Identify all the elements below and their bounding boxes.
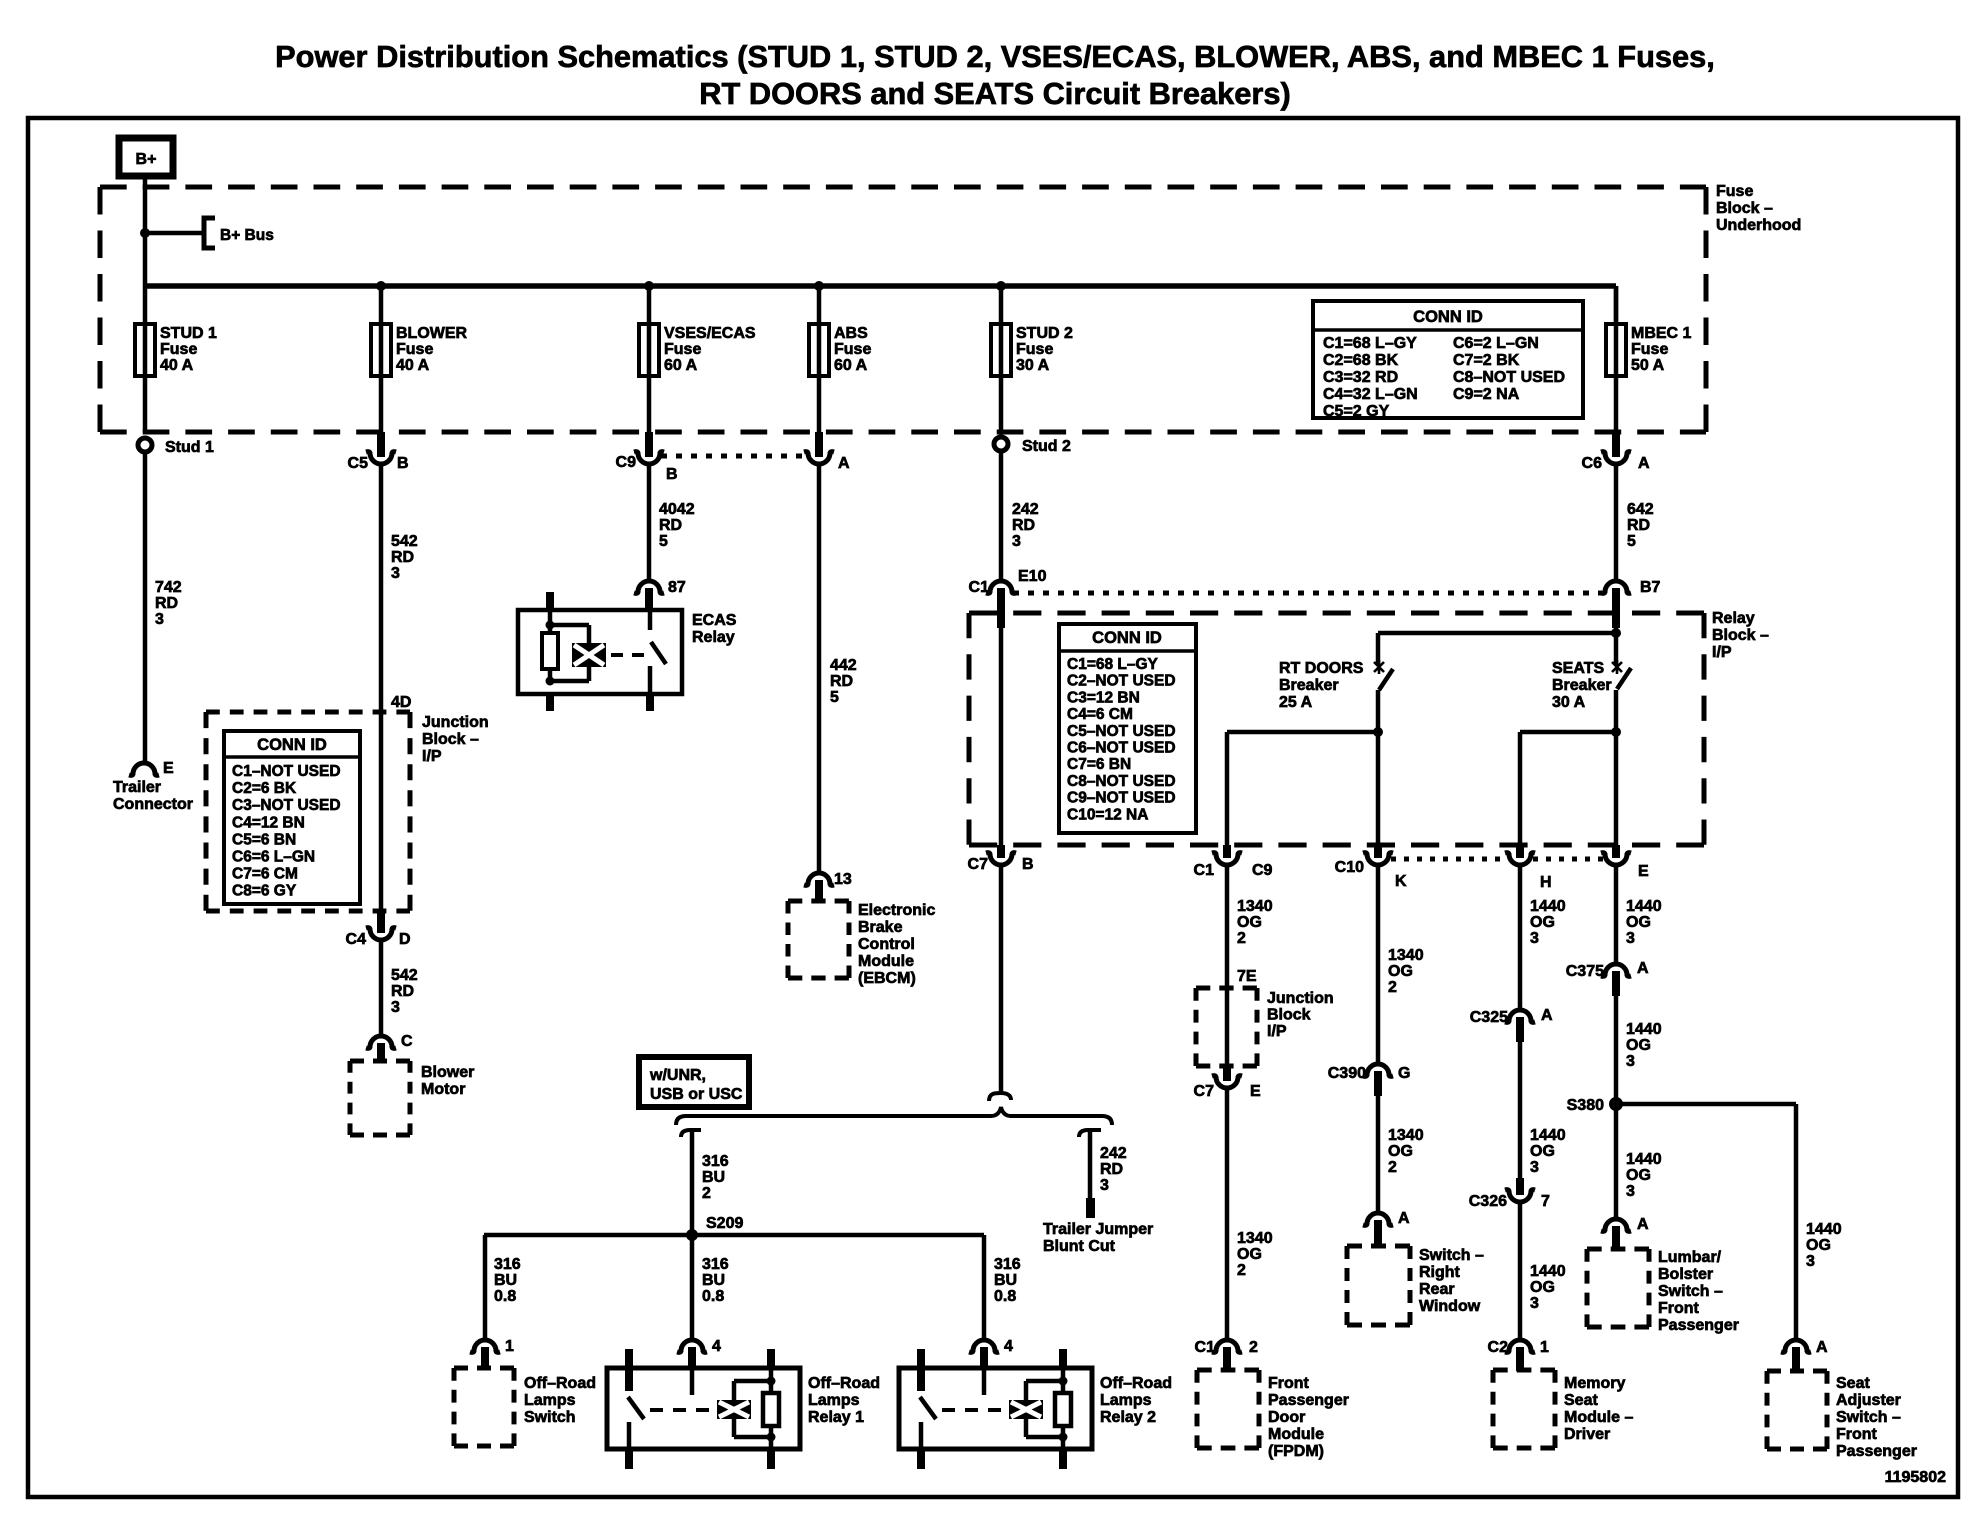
svg-text:1195802: 1195802	[1885, 1469, 1947, 1486]
svg-text:2: 2	[702, 1185, 711, 1202]
svg-text:Stud 1: Stud 1	[165, 439, 214, 456]
splice S380	[1609, 1097, 1623, 1111]
svg-text:1440: 1440	[1626, 898, 1662, 915]
svg-text:3: 3	[155, 611, 164, 628]
svg-text:Motor: Motor	[421, 1081, 465, 1098]
svg-text:E: E	[1250, 1083, 1261, 1100]
wire RT DOORS breaker output	[1376, 690, 1381, 845]
Front Passenger Door Module (FPDM)	[1197, 1368, 1259, 1373]
svg-text:Fuse: Fuse	[834, 341, 871, 358]
Blower Motor module	[350, 1059, 410, 1064]
svg-text:RD: RD	[1100, 1161, 1123, 1178]
svg-text:B: B	[666, 466, 678, 483]
svg-text:C7: C7	[1194, 1083, 1215, 1100]
svg-text:2: 2	[1237, 1262, 1246, 1279]
connector C326 pin 7	[1516, 1178, 1524, 1195]
svg-text:5: 5	[659, 533, 668, 550]
wire 442 RD 5	[817, 463, 822, 873]
svg-text:Switch –: Switch –	[1419, 1247, 1484, 1264]
svg-text:Lamps: Lamps	[1100, 1392, 1152, 1409]
svg-text:C10: C10	[1335, 859, 1364, 876]
svg-text:OG: OG	[1388, 963, 1413, 980]
svg-text:442: 442	[830, 657, 857, 674]
fuse BLOWER 40 A	[379, 286, 384, 324]
svg-text:I/P: I/P	[422, 748, 442, 765]
svg-text:C1: C1	[1194, 862, 1215, 879]
wire 642 RD 5	[1614, 463, 1619, 581]
svg-text:C1: C1	[1195, 1339, 1216, 1356]
wire 1440 OG 3 to S380	[1614, 996, 1619, 1104]
svg-text:Lumbar/: Lumbar/	[1658, 1249, 1722, 1266]
svg-text:Fuse: Fuse	[1016, 341, 1053, 358]
relay Off-Road Lamps Relay 2	[899, 1368, 1092, 1449]
connector pin A switch RRW	[1363, 1213, 1393, 1225]
wire E10 to C7	[999, 628, 1004, 845]
svg-text:C4=6 CM: C4=6 CM	[1067, 706, 1133, 723]
svg-text:Block: Block	[1267, 1007, 1311, 1024]
wire S209 bus	[484, 1233, 984, 1238]
wire breaker feed to RT DOORS	[1378, 631, 1616, 636]
svg-text:VSES/ECAS: VSES/ECAS	[664, 325, 756, 342]
svg-text:60 A: 60 A	[834, 357, 868, 374]
svg-text:C9: C9	[1252, 862, 1273, 879]
svg-text:5: 5	[830, 689, 839, 706]
wire B+ feed	[143, 176, 148, 286]
svg-text:RD: RD	[659, 517, 682, 534]
svg-text:1: 1	[505, 1338, 514, 1355]
svg-text:OG: OG	[1626, 1037, 1651, 1054]
svg-text:Rear: Rear	[1419, 1281, 1455, 1298]
wire to C1/C9	[1227, 730, 1378, 735]
connector pin A lumbar	[1601, 1219, 1631, 1231]
svg-text:4: 4	[712, 1338, 721, 1355]
svg-text:CONN ID: CONN ID	[1092, 629, 1162, 647]
svg-text:C7=2 BK: C7=2 BK	[1453, 352, 1520, 369]
svg-text:K: K	[1395, 873, 1407, 890]
svg-text:Front: Front	[1658, 1300, 1700, 1317]
svg-text:Junction: Junction	[422, 714, 489, 731]
connector pin 13	[804, 873, 834, 885]
wire to B+ Bus	[145, 231, 203, 236]
Seat Adjuster Switch - Front Passenger	[1767, 1369, 1827, 1374]
junction on bus at BLOWER	[376, 281, 386, 291]
svg-text:542: 542	[391, 533, 418, 550]
svg-text:Junction: Junction	[1267, 990, 1334, 1007]
svg-text:BU: BU	[494, 1272, 517, 1289]
svg-text:542: 542	[391, 967, 418, 984]
svg-text:4: 4	[1004, 1338, 1013, 1355]
svg-text:Brake: Brake	[858, 919, 903, 936]
svg-text:C3=32 RD: C3=32 RD	[1323, 369, 1398, 386]
svg-text:Fuse: Fuse	[396, 341, 433, 358]
ECAS Relay	[518, 610, 682, 694]
svg-text:OG: OG	[1530, 1279, 1555, 1296]
dotted connector tie C9-A	[661, 454, 807, 459]
svg-text:Breaker: Breaker	[1552, 677, 1612, 694]
svg-text:40 A: 40 A	[396, 357, 430, 374]
wire 316 BU 0.8 right	[982, 1235, 987, 1340]
svg-text:B: B	[397, 455, 409, 472]
svg-text:316: 316	[494, 1256, 521, 1273]
connector pin 4 relay 1	[677, 1340, 707, 1352]
svg-text:Seat: Seat	[1564, 1392, 1598, 1409]
svg-text:C326: C326	[1469, 1193, 1507, 1210]
svg-text:Electronic: Electronic	[858, 902, 935, 919]
svg-text:Door: Door	[1268, 1409, 1305, 1426]
svg-text:3: 3	[1530, 1295, 1539, 1312]
svg-text:C1=68 L–GY: C1=68 L–GY	[1067, 656, 1159, 673]
wire through junction block IP	[1225, 988, 1230, 1066]
svg-text:C3–NOT USED: C3–NOT USED	[232, 797, 341, 814]
svg-text:D: D	[399, 931, 411, 948]
dotted connector tie C10-H-E	[1391, 857, 1507, 862]
ECAS relay pin stubs below	[546, 694, 554, 711]
wire SEATS breaker output	[1614, 690, 1619, 845]
Junction Block I/P small	[1196, 986, 1257, 991]
svg-text:A: A	[1541, 1007, 1553, 1024]
svg-text:3: 3	[1100, 1177, 1109, 1194]
connector pin A at ABS fuse	[815, 432, 823, 457]
ECAS relay coil-contact dashed link	[611, 653, 645, 657]
svg-text:40 A: 40 A	[160, 357, 194, 374]
svg-text:BU: BU	[702, 1272, 725, 1289]
svg-text:3: 3	[1530, 930, 1539, 947]
svg-text:7: 7	[1541, 1193, 1550, 1210]
svg-text:(EBCM): (EBCM)	[858, 970, 916, 987]
wire 1340 OG 2 to C390	[1376, 866, 1381, 1064]
svg-text:RD: RD	[155, 595, 178, 612]
svg-text:C1: C1	[969, 579, 990, 596]
svg-text:C7: C7	[968, 856, 989, 873]
svg-text:B+: B+	[136, 151, 157, 168]
svg-text:C: C	[401, 1033, 413, 1050]
svg-text:3: 3	[1012, 533, 1021, 550]
ECAS relay switch	[648, 610, 653, 630]
svg-text:B: B	[1022, 856, 1034, 873]
svg-text:1440: 1440	[1806, 1221, 1842, 1238]
svg-text:C4=12 BN: C4=12 BN	[232, 814, 305, 831]
svg-text:13: 13	[834, 871, 852, 888]
svg-text:H: H	[1540, 874, 1552, 891]
svg-text:Adjuster: Adjuster	[1836, 1392, 1901, 1409]
svg-text:Off–Road: Off–Road	[1100, 1375, 1172, 1392]
junction on bus at ABS	[814, 281, 824, 291]
svg-text:OG: OG	[1626, 914, 1651, 931]
svg-text:316: 316	[702, 1256, 729, 1273]
svg-text:MBEC 1: MBEC 1	[1631, 325, 1692, 342]
wire 1340 OG 2 to switch	[1376, 1096, 1381, 1213]
svg-text:w/UNR,: w/UNR,	[649, 1067, 706, 1084]
connector C375 pin A	[1601, 964, 1631, 976]
svg-text:Block –: Block –	[1712, 627, 1769, 644]
fuse MBEC 1 50 A	[1614, 286, 1619, 324]
Fuse Block - Underhood boundary	[100, 185, 1706, 190]
Off-Road Lamps Switch	[454, 1366, 514, 1371]
Relay Block - I/P boundary	[969, 611, 1704, 616]
ECAS relay coil loop with valve symbol	[550, 623, 589, 628]
svg-text:Block –: Block –	[1716, 200, 1773, 217]
svg-text:Block –: Block –	[422, 731, 479, 748]
svg-text:C9: C9	[616, 454, 637, 471]
svg-text:C6=2 L–GN: C6=2 L–GN	[1453, 335, 1539, 352]
wire end hook	[989, 1093, 1011, 1101]
svg-text:87: 87	[668, 579, 686, 596]
svg-text:C325: C325	[1470, 1009, 1508, 1026]
svg-text:3: 3	[391, 999, 400, 1016]
svg-text:A: A	[1816, 1339, 1828, 1356]
svg-text:RD: RD	[391, 549, 414, 566]
stud terminal Stud 2	[994, 437, 1008, 451]
connector pin A seat adjuster	[1781, 1340, 1811, 1352]
wire B7 to breakers	[1614, 628, 1619, 664]
svg-text:Relay: Relay	[692, 629, 735, 646]
svg-text:Bolster: Bolster	[1658, 1266, 1713, 1283]
svg-text:A: A	[1638, 455, 1650, 472]
wire 1440 OG 3 to C375	[1614, 866, 1619, 964]
svg-text:Fuse: Fuse	[1631, 341, 1668, 358]
connector pin 1	[470, 1340, 500, 1352]
svg-text:Off–Road: Off–Road	[524, 1375, 596, 1392]
stud terminal Stud 1	[138, 438, 152, 452]
connector C4 pin D	[377, 911, 385, 933]
ECAS relay coil	[542, 633, 558, 669]
svg-text:2: 2	[1388, 1159, 1397, 1176]
svg-text:RT DOORS and SEATS Circuit Bre: RT DOORS and SEATS Circuit Breakers)	[699, 76, 1291, 111]
svg-text:C6: C6	[1582, 455, 1603, 472]
wire 1340 OG 2 lower	[1225, 1089, 1230, 1340]
svg-text:C10=12 NA: C10=12 NA	[1067, 806, 1148, 823]
svg-text:C2=68 BK: C2=68 BK	[1323, 352, 1399, 369]
connector C2 pin 1 memory seat	[1505, 1340, 1535, 1352]
svg-text:2: 2	[1237, 930, 1246, 947]
connector pin H	[1516, 845, 1524, 858]
svg-text:1340: 1340	[1388, 1127, 1424, 1144]
svg-text:A: A	[1637, 1216, 1649, 1233]
Junction Block - I/P boundary	[206, 710, 410, 715]
svg-text:Connector: Connector	[113, 796, 193, 813]
wire 542 RD 3 lower	[379, 941, 384, 1036]
svg-text:Fuse: Fuse	[160, 341, 197, 358]
svg-text:Relay 1: Relay 1	[808, 1409, 864, 1426]
wire 316 circuit feed	[999, 866, 1004, 1093]
connector C - Blower Motor	[366, 1036, 396, 1048]
svg-text:242: 242	[1100, 1145, 1127, 1162]
svg-text:A: A	[838, 455, 850, 472]
svg-text:2: 2	[1388, 979, 1397, 996]
svg-text:I/P: I/P	[1712, 644, 1732, 661]
wire 742 RD 3	[143, 452, 148, 762]
svg-text:742: 742	[155, 579, 182, 596]
junction RT DOORS split	[1373, 727, 1383, 737]
svg-text:OG: OG	[1530, 914, 1555, 931]
connector C9 pin B	[645, 432, 653, 457]
svg-text:Trailer Jumper: Trailer Jumper	[1043, 1221, 1153, 1238]
svg-text:3: 3	[1626, 1053, 1635, 1070]
svg-text:Right: Right	[1419, 1264, 1461, 1281]
svg-text:E: E	[1638, 863, 1649, 880]
svg-text:B+ Bus: B+ Bus	[220, 227, 274, 244]
wire B+ bus distribution	[145, 283, 1616, 289]
svg-text:S209: S209	[706, 1215, 743, 1232]
svg-text:RD: RD	[830, 673, 853, 690]
svg-text:E10: E10	[1018, 568, 1047, 585]
relay Off-Road Lamps Relay 1	[607, 1368, 800, 1449]
svg-text:Module: Module	[858, 953, 914, 970]
svg-text:Front: Front	[1268, 1375, 1310, 1392]
svg-text:4D: 4D	[391, 694, 411, 711]
svg-text:Relay: Relay	[1712, 610, 1755, 627]
svg-text:C390: C390	[1328, 1065, 1366, 1082]
svg-text:RT DOORS: RT DOORS	[1279, 660, 1364, 677]
svg-text:Memory: Memory	[1564, 1375, 1625, 1392]
svg-text:Blower: Blower	[421, 1064, 474, 1081]
svg-text:1340: 1340	[1388, 947, 1424, 964]
CONN ID table - fuse block underhood	[1313, 301, 1583, 418]
svg-text:C8=6 GY: C8=6 GY	[232, 883, 297, 900]
svg-text:C6=6 L–GN: C6=6 L–GN	[232, 849, 315, 866]
svg-text:2: 2	[1249, 1339, 1258, 1356]
svg-text:0.8: 0.8	[494, 1288, 516, 1305]
svg-text:316: 316	[702, 1153, 729, 1170]
wire 316 BU 0.8 middle	[690, 1235, 695, 1340]
svg-text:C5–NOT USED: C5–NOT USED	[1067, 723, 1176, 740]
connector C7 pin B	[997, 845, 1005, 858]
svg-text:Breaker: Breaker	[1279, 677, 1339, 694]
svg-text:RD: RD	[1012, 517, 1035, 534]
svg-text:STUD 1: STUD 1	[160, 325, 217, 342]
svg-text:0.8: 0.8	[702, 1288, 724, 1305]
svg-text:C8–NOT USED: C8–NOT USED	[1067, 773, 1176, 790]
svg-text:1440: 1440	[1530, 898, 1566, 915]
svg-text:(FPDM): (FPDM)	[1268, 1443, 1324, 1460]
svg-text:C7=6 CM: C7=6 CM	[232, 866, 298, 883]
wire 542 RD 3 upper	[379, 463, 384, 712]
node B+ Bus tap	[140, 228, 150, 238]
svg-text:STUD 2: STUD 2	[1016, 325, 1073, 342]
svg-text:Driver: Driver	[1564, 1426, 1610, 1443]
svg-text:Lamps: Lamps	[524, 1392, 576, 1409]
svg-text:3: 3	[1626, 1183, 1635, 1200]
fuse ABS 60 A	[817, 286, 822, 324]
svg-text:CONN ID: CONN ID	[257, 736, 327, 754]
svg-text:OG: OG	[1806, 1237, 1831, 1254]
svg-text:C5=6 BN: C5=6 BN	[232, 831, 296, 848]
svg-text:1340: 1340	[1237, 898, 1273, 915]
connector pin 87	[634, 581, 664, 593]
svg-text:C6–NOT USED: C6–NOT USED	[1067, 740, 1176, 757]
svg-text:1: 1	[1540, 1339, 1549, 1356]
svg-text:C2–NOT USED: C2–NOT USED	[1067, 673, 1176, 690]
svg-text:OG: OG	[1237, 1246, 1262, 1263]
svg-text:Trailer: Trailer	[113, 779, 161, 796]
svg-text:4042: 4042	[659, 501, 695, 518]
connector C6 pin A	[1612, 432, 1620, 457]
svg-text:E: E	[163, 760, 174, 777]
svg-text:3: 3	[1626, 930, 1635, 947]
svg-text:1340: 1340	[1237, 1230, 1273, 1247]
svg-text:642: 642	[1627, 501, 1654, 518]
svg-text:S380: S380	[1567, 1097, 1604, 1114]
fuse VSES/ECAS 60 A	[647, 286, 652, 324]
Electronic Brake Control Module (EBCM)	[788, 899, 849, 904]
svg-text:Seat: Seat	[1836, 1375, 1870, 1392]
svg-text:BU: BU	[702, 1169, 725, 1186]
svg-text:3: 3	[1530, 1159, 1539, 1176]
svg-text:C1=68 L–GY: C1=68 L–GY	[1323, 335, 1417, 352]
svg-text:5: 5	[1627, 533, 1636, 550]
svg-text:SEATS: SEATS	[1552, 660, 1604, 677]
svg-text:Blunt Cut: Blunt Cut	[1043, 1238, 1116, 1255]
svg-text:Switch –: Switch –	[1658, 1283, 1723, 1300]
svg-text:Underhood: Underhood	[1716, 217, 1801, 234]
svg-text:Control: Control	[858, 936, 915, 953]
svg-text:C9=2 NA: C9=2 NA	[1453, 386, 1520, 403]
svg-text:C4=32 L–GN: C4=32 L–GN	[1323, 386, 1418, 403]
dotted connector tie E10-B7	[1013, 591, 1602, 596]
Lumbar/Bolster Switch - Front Passenger	[1587, 1247, 1649, 1252]
fuse STUD 2 30 A	[999, 286, 1004, 324]
junction breaker feed	[1611, 628, 1621, 638]
svg-text:RD: RD	[391, 983, 414, 1000]
svg-text:B7: B7	[1640, 579, 1661, 596]
svg-text:USB or USC: USB or USC	[650, 1086, 743, 1103]
wire 1440 OG 3 to C326	[1518, 1042, 1523, 1180]
svg-text:C375: C375	[1566, 963, 1604, 980]
svg-text:A: A	[1637, 960, 1649, 977]
svg-text:1440: 1440	[1530, 1127, 1566, 1144]
connector C1 pin 2 FPDM	[1212, 1340, 1242, 1352]
svg-text:C2=6 BK: C2=6 BK	[232, 780, 297, 797]
splice S209	[686, 1229, 698, 1241]
svg-text:ECAS: ECAS	[692, 612, 737, 629]
connector C1 pin E10	[986, 581, 1016, 593]
svg-text:7E: 7E	[1237, 968, 1257, 985]
svg-text:Fuse: Fuse	[664, 341, 701, 358]
connector C5 pin B	[377, 432, 385, 457]
connector pin 4 relay 2	[969, 1340, 999, 1352]
svg-text:Power Distribution Schematics: Power Distribution Schematics (STUD 1, S…	[275, 39, 1715, 74]
svg-text:Stud 2: Stud 2	[1022, 438, 1071, 455]
svg-text:CONN ID: CONN ID	[1413, 308, 1483, 326]
wire 1340 OG 2 upper	[1225, 866, 1230, 988]
svg-text:C8–NOT USED: C8–NOT USED	[1453, 369, 1565, 386]
svg-text:C5=2 GY: C5=2 GY	[1323, 403, 1390, 420]
svg-text:C5: C5	[348, 455, 369, 472]
option brace	[676, 1107, 1112, 1125]
svg-text:Module: Module	[1268, 1426, 1324, 1443]
svg-text:25 A: 25 A	[1279, 694, 1313, 711]
connector C1 pin C9	[1223, 845, 1231, 858]
svg-text:0.8: 0.8	[994, 1288, 1016, 1305]
svg-text:C7=6 BN: C7=6 BN	[1067, 756, 1131, 773]
svg-text:3: 3	[1806, 1253, 1815, 1270]
connector C390 pin G	[1363, 1064, 1393, 1076]
power terminal B+	[119, 138, 173, 176]
svg-text:C2: C2	[1488, 1339, 1509, 1356]
svg-text:OG: OG	[1237, 914, 1262, 931]
svg-text:I/P: I/P	[1267, 1023, 1287, 1040]
svg-text:Passenger: Passenger	[1836, 1443, 1917, 1460]
svg-text:Front: Front	[1836, 1426, 1878, 1443]
svg-text:Passenger: Passenger	[1658, 1317, 1739, 1334]
wire to H	[1520, 730, 1616, 735]
B+ Bus terminal	[204, 218, 215, 248]
wire 316 BU 0.8 left	[483, 1235, 488, 1340]
wire 242 RD 3 trailer jumper	[1079, 1130, 1101, 1137]
junction on bus at VSES/ECAS	[644, 281, 654, 291]
svg-text:C4: C4	[346, 931, 367, 948]
svg-text:A: A	[1398, 1210, 1410, 1227]
